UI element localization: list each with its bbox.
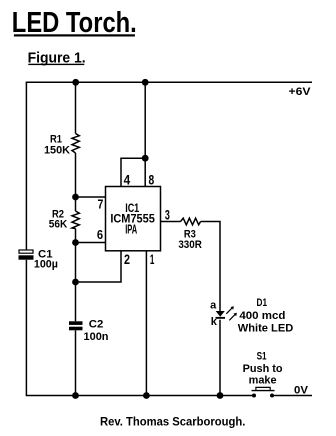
wire: 0V rail left <box>26 395 254 397</box>
wire: 0V rail right <box>272 395 312 397</box>
node: R2 / pin 6 <box>72 239 79 246</box>
wire: left battery branch lower <box>25 260 27 396</box>
label: LED anode a <box>210 300 217 312</box>
resistor R1 <box>72 134 79 154</box>
LED D1 symbol <box>216 306 237 320</box>
svg-text:400 mcd: 400 mcd <box>239 310 285 322</box>
wire: pin 4 branch <box>121 158 145 186</box>
label: 0V <box>294 384 309 396</box>
label: R1 value <box>44 134 70 157</box>
svg-text:D1: D1 <box>257 297 268 309</box>
svg-text:S1: S1 <box>257 351 267 363</box>
node: +6V rail / R1 branch <box>72 79 79 86</box>
label: R3 value <box>178 228 202 251</box>
label: LED cathode k <box>211 316 218 328</box>
svg-text:150K: 150K <box>44 144 70 156</box>
label: +6V <box>289 86 312 98</box>
label: S1 Push to make <box>243 351 283 387</box>
wire: R3 to LED anode <box>201 222 220 312</box>
svg-text:+6V: +6V <box>289 86 312 98</box>
capacitor C1 (polarized) <box>19 250 34 260</box>
svg-text:4: 4 <box>124 171 131 187</box>
pin 1 label <box>150 251 155 267</box>
svg-text:make: make <box>249 375 277 387</box>
svg-text:100µ: 100µ <box>34 259 58 271</box>
svg-text:LED Torch.: LED Torch. <box>12 6 137 39</box>
node: +6V rail / pin 8 branch <box>142 79 149 86</box>
svg-text:C2: C2 <box>89 318 104 330</box>
wire: pin 2 to C2 top node <box>76 251 122 282</box>
label: R2 value <box>49 208 68 230</box>
svg-text:100n: 100n <box>84 331 109 343</box>
title: LED Torch. <box>12 6 137 39</box>
pin 3 label <box>165 206 170 222</box>
svg-text:3: 3 <box>165 206 170 222</box>
wire: middle branch top <box>75 82 77 134</box>
svg-text:Push to: Push to <box>243 363 283 375</box>
svg-text:a: a <box>210 300 217 312</box>
wire: middle branch C2-0V <box>75 330 77 396</box>
svg-text:1: 1 <box>150 251 155 267</box>
switch S1 push-to-make <box>252 387 275 397</box>
node: 0V rail / LED branch <box>217 392 224 399</box>
pin 8 label <box>149 171 155 187</box>
resistor R3 <box>181 218 201 225</box>
wire: pin 8 supply from +6V rail <box>144 82 146 187</box>
svg-text:330R: 330R <box>178 239 202 251</box>
wire: LED cathode to 0V rail <box>219 320 221 396</box>
wire: pin 7 to R1/R2 node <box>76 196 106 198</box>
node: pin 4 / pin 8 junction <box>142 155 149 162</box>
figure label: Figure 1. <box>28 50 86 67</box>
pin 6 label <box>97 228 103 242</box>
svg-text:7: 7 <box>98 197 104 211</box>
wire: pin 3 output <box>161 221 181 223</box>
wire: middle branch R1-R2 <box>75 153 77 211</box>
svg-text:8: 8 <box>149 171 155 187</box>
svg-text:IPA: IPA <box>125 223 137 237</box>
wire: +6V top rail <box>26 81 312 83</box>
wire: pin 1 to 0V rail <box>145 251 147 396</box>
svg-text:Rev. Thomas Scarborough.: Rev. Thomas Scarborough. <box>100 416 246 428</box>
svg-text:k: k <box>211 316 218 328</box>
pin 4 label <box>124 171 131 187</box>
node: 0V rail / C2 branch <box>72 392 79 399</box>
node: R1 / R2 / pin 7 <box>72 194 79 201</box>
svg-text:0V: 0V <box>294 384 309 396</box>
credit text <box>100 416 246 428</box>
wire: pin 6 to R2 bottom node <box>76 242 106 244</box>
svg-text:White LED: White LED <box>238 323 294 335</box>
label: C2 value <box>84 318 109 343</box>
wire: middle branch R2-C2 <box>75 229 77 322</box>
wire: left battery branch upper <box>25 82 27 250</box>
node: 0V rail / pin 1 branch <box>143 392 150 399</box>
svg-text:6: 6 <box>97 228 103 242</box>
label: D1 value <box>238 297 294 335</box>
resistor R2 <box>72 211 79 229</box>
svg-text:56K: 56K <box>49 219 68 231</box>
IC IC1 ICM7555 body <box>106 187 161 251</box>
node: pin 2 / C2 <box>72 279 79 286</box>
label: IC1 ICM7555 IPA <box>110 203 155 237</box>
svg-text:2: 2 <box>124 251 130 267</box>
pin 2 label <box>124 251 130 267</box>
pin 7 label <box>98 197 104 211</box>
capacitor C2 <box>69 321 83 330</box>
label: C1 value <box>34 249 58 271</box>
